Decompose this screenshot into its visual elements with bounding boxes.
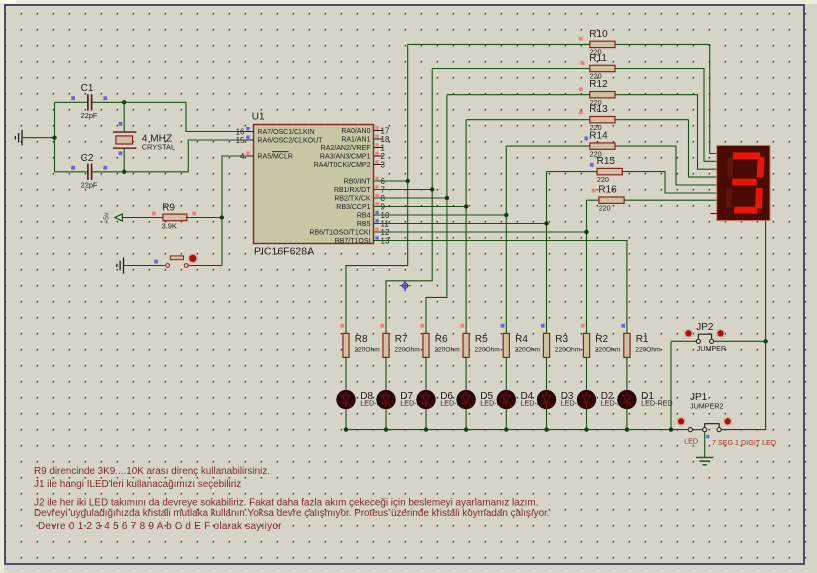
wire ground to node A [22, 137, 55, 139]
svg-text:R7: R7 [395, 334, 408, 345]
wire JP1 to ground [704, 432, 706, 458]
pin 6 (right) RB0/INT [374, 180, 383, 182]
junction RB0 [406, 179, 410, 183]
wire C2 to pin15 [92, 140, 253, 172]
svg-text:RA2/AN2/VREF: RA2/AN2/VREF [321, 145, 371, 152]
svg-text:R2: R2 [595, 334, 608, 345]
wire R6 to D6 [425, 357, 427, 390]
wire node D to pin4 and button [222, 156, 254, 266]
wire RB6 vertical [586, 200, 588, 333]
svg-text:RB6/T1OSO/T1CKI: RB6/T1OSO/T1CKI [309, 230, 370, 237]
svg-text:RA6/OSC2/CLKOUT: RA6/OSC2/CLKOUT [258, 138, 324, 145]
svg-text:220Ohm: 220Ohm [515, 346, 541, 353]
LED D3 [537, 390, 556, 409]
wire ground to button [124, 265, 166, 267]
wire D7 to bus [385, 409, 387, 429]
wire RB2 pin line [374, 197, 447, 199]
wire to R11 left [432, 68, 590, 70]
pin 12 (right) RB6/T1OSO/T1CKI [374, 231, 383, 233]
ground (button) [117, 257, 124, 273]
junction bus D4 [504, 427, 508, 431]
LED D5 [456, 390, 475, 409]
svg-text:R14: R14 [589, 131, 608, 142]
wire to R16 left [587, 199, 599, 201]
pin 16 (left) [246, 131, 254, 133]
wire RB2 vertical [426, 95, 447, 334]
svg-text:220Ohm: 220Ohm [555, 346, 581, 353]
svg-text:22pF: 22pF [81, 111, 98, 120]
pin 10 (right) RB4 [374, 214, 383, 216]
wire R15 to display [622, 172, 716, 193]
svg-text:4: 4 [240, 152, 245, 161]
svg-text:+5v: +5v [104, 212, 111, 224]
junction RB4 [504, 213, 508, 217]
junction bus D5 [464, 427, 468, 431]
junction display common / JP2 [763, 339, 767, 343]
svg-text:220Ohm: 220Ohm [595, 346, 621, 353]
wire D1 to bus [626, 409, 628, 429]
svg-text:3.9K: 3.9K [162, 222, 177, 231]
LED D1 [617, 390, 636, 409]
svg-text:22pF: 22pF [81, 180, 98, 189]
svg-text:R12: R12 [589, 79, 608, 90]
junction RB3 [464, 204, 468, 208]
power +5v arrow terminal [115, 214, 123, 221]
svg-text:CRYSTAL: CRYSTAL [142, 143, 175, 152]
junction bus D2 [584, 427, 588, 431]
wire RB5 pin line [374, 223, 547, 225]
wire JP2 right [714, 340, 766, 342]
junction RB5 [544, 221, 548, 225]
pin 3 (right) RA4/T0CKI/CMP2 [374, 164, 383, 166]
resistor R4 [501, 324, 505, 328]
wire R12 to display [615, 95, 717, 170]
junction bus D6 [424, 427, 428, 431]
svg-text:R1: R1 [636, 334, 649, 345]
capacitor C2 [88, 164, 92, 180]
wire RB1 pin line [374, 189, 433, 191]
resistor R2 [581, 324, 585, 328]
svg-text:R15: R15 [597, 156, 616, 167]
wire R10 to display [615, 44, 717, 153]
resistor R3 [541, 324, 545, 328]
wire R3 to D3 [546, 357, 548, 390]
wire RB7 to R1 [374, 241, 627, 334]
svg-text:LED-RED: LED-RED [641, 399, 673, 408]
wire JP2 left vertical [670, 341, 672, 429]
svg-text:220Ohm: 220Ohm [354, 346, 380, 353]
wire R8 to D8 [345, 357, 347, 390]
svg-text:R8: R8 [355, 334, 368, 345]
svg-text:R16: R16 [598, 185, 617, 196]
wire to R14 left [506, 145, 590, 147]
wire R2 to D2 [586, 357, 588, 390]
svg-text:R3: R3 [555, 334, 568, 345]
7-segment display (digit 3) [717, 145, 770, 220]
wire RB5 vertical [546, 172, 548, 334]
svg-text:LED: LED [684, 437, 698, 446]
LED D7 [376, 390, 395, 409]
wire to R10 left [408, 43, 590, 45]
junction RB1 [430, 187, 434, 191]
node C junction [122, 170, 126, 174]
resistor R5 [461, 324, 465, 328]
wire RB4 vertical [505, 146, 507, 333]
pin 13 (right) RB7/T1OSI [374, 240, 383, 242]
svg-text:220: 220 [599, 203, 611, 212]
svg-text:RB7/T1OSI: RB7/T1OSI [335, 238, 371, 245]
svg-text:3: 3 [381, 161, 386, 170]
wire node A vertical [54, 102, 56, 172]
svg-text:RA5/MCLR: RA5/MCLR [258, 154, 293, 161]
svg-text:RA7/OSC1/CLKIN: RA7/OSC1/CLKIN [258, 129, 315, 136]
svg-text:U1: U1 [252, 112, 265, 123]
wire node B to pin16 [124, 102, 253, 131]
svg-text:JP2: JP2 [696, 322, 714, 333]
svg-text:15: 15 [236, 136, 245, 145]
svg-text:220Ohm: 220Ohm [475, 346, 501, 353]
wire JP2 left [671, 340, 696, 342]
junction bus D1 [625, 427, 629, 431]
LED D4 [497, 390, 516, 409]
resistor R9 [163, 214, 187, 221]
wire R7 to D7 [385, 357, 387, 390]
ground (JP1) [696, 457, 713, 464]
ground (oscillator) [15, 130, 22, 146]
pin 4 (left) [246, 155, 254, 157]
svg-text:JUMPER2: JUMPER2 [690, 401, 724, 410]
svg-text:R13: R13 [589, 104, 608, 115]
wire to R12 left [447, 94, 590, 96]
wire JP1 middle segment [692, 429, 702, 431]
resistor R8 [340, 324, 344, 328]
junction bus D7 [384, 427, 388, 431]
pin 8 (right) RB2/TX/CK [374, 197, 383, 199]
wire +5v to R9 [122, 217, 162, 219]
wire crystal bottom to node C [123, 148, 125, 172]
resistor R6 [420, 324, 424, 328]
svg-text:Devreyi uyguladığınızda krista: Devreyi uyguladığınızda kristali mutlaka… [34, 508, 550, 519]
wire R9 to node D [187, 217, 222, 219]
wire to R13 left [466, 119, 590, 121]
wire RB1 vertical [386, 69, 432, 334]
wire R5 to D5 [465, 357, 467, 390]
svg-text:RB3/CCP1: RB3/CCP1 [336, 204, 370, 211]
node A junction [52, 136, 56, 140]
svg-text:RA1/AN1: RA1/AN1 [341, 137, 370, 144]
wire R11 to display [615, 69, 717, 162]
svg-text:RB2/TX/CK: RB2/TX/CK [334, 196, 371, 203]
LED D6 [416, 390, 435, 409]
wire D2 to bus [586, 409, 588, 429]
svg-text:220Ohm: 220Ohm [434, 346, 460, 353]
wire to R15 left [547, 171, 598, 173]
pin 18 (right) RA1/AN1 [374, 138, 383, 140]
svg-text:C1: C1 [81, 83, 94, 94]
push button (reset) [166, 264, 170, 268]
svg-text:R9: R9 [162, 203, 175, 214]
wire display common [719, 221, 766, 430]
svg-text:C2: C2 [81, 153, 94, 164]
pin 1 (right) RA2/AN2/VREF [374, 147, 383, 149]
svg-text:RB0/INT: RB0/INT [344, 179, 372, 186]
wire C1 to node B [92, 101, 124, 103]
wire RB3 pin line [374, 206, 467, 208]
wire RB4 pin line [374, 214, 507, 216]
wire R1 to D1 [626, 357, 628, 390]
svg-text:7 SEG 1 DIGIT LED: 7 SEG 1 DIGIT LED [712, 438, 776, 447]
node D junction [220, 215, 224, 219]
junction bus / JP2 vertical [669, 427, 673, 431]
resistor R7 [380, 324, 384, 328]
wire R14 to display [615, 146, 717, 185]
wire RB0 vertical [346, 44, 408, 333]
svg-text:RB1/RX/DT: RB1/RX/DT [334, 187, 371, 194]
LED D2 [577, 390, 596, 409]
svg-text:R11: R11 [589, 53, 607, 64]
wire D3 to bus [546, 409, 548, 429]
wire RB3 vertical [465, 120, 467, 334]
junction RB2 [445, 196, 449, 200]
junction bus D3 [544, 427, 548, 431]
junction bus D8 [344, 427, 348, 431]
svg-text:RB4: RB4 [357, 213, 371, 220]
wire button to MCLR net [188, 265, 222, 267]
pin 15 (left) [246, 139, 254, 141]
wire D5 to bus [465, 409, 467, 429]
wire node A to C1 [55, 101, 88, 103]
wire RB0 pin line [374, 180, 408, 182]
wire D6 to bus [425, 409, 427, 429]
LED D8 [336, 390, 355, 409]
wire D4 to bus [505, 409, 507, 429]
wire R16 to display [624, 199, 717, 201]
wire RB6 pin line [374, 231, 587, 233]
svg-text:Devre 0 1 2 3 4 5 6 7 8 9 A b: Devre 0 1 2 3 4 5 6 7 8 9 A b C d E F ol… [38, 521, 282, 532]
node B junction [122, 100, 126, 104]
junction RB6 [584, 230, 588, 234]
pin 7 (right) RB1/RX/DT [374, 189, 383, 191]
svg-text:R10: R10 [589, 29, 608, 40]
svg-text:R9 direncinde 3K9....10K arası: R9 direncinde 3K9....10K arası direnç ku… [34, 466, 270, 477]
wire LED bus [346, 429, 688, 431]
wire R4 to D4 [505, 357, 507, 390]
wire D8 to bus [345, 409, 347, 429]
wire node A to C2 [55, 171, 88, 173]
svg-text:R4: R4 [515, 334, 528, 345]
svg-text:220Ohm: 220Ohm [635, 346, 661, 353]
pin 9 (right) RB3/CCP1 [374, 206, 383, 208]
wire R13 to display [615, 120, 717, 177]
svg-text:RA4/T0CKI/CMP2: RA4/T0CKI/CMP2 [314, 162, 371, 169]
svg-text:PIC16F628A: PIC16F628A [254, 246, 314, 258]
origin marker [400, 280, 411, 291]
pin 11 (right) RB5 [374, 223, 383, 225]
svg-text:RB5: RB5 [357, 221, 371, 228]
pin 2 (right) RA3/AN3/CMP1 [374, 155, 383, 157]
svg-text:R5: R5 [475, 334, 488, 345]
svg-text:JUMPER: JUMPER [697, 344, 727, 353]
resistor R1 [621, 324, 625, 328]
svg-text:R6: R6 [435, 334, 448, 345]
display pin stub 8 [711, 213, 717, 215]
svg-text:RA0/AN0: RA0/AN0 [341, 128, 370, 135]
svg-text:RA3/AN3/CMP1: RA3/AN3/CMP1 [320, 154, 371, 161]
wire node B to crystal top [123, 102, 125, 132]
capacitor C1 [88, 94, 92, 110]
svg-text:220: 220 [597, 175, 609, 184]
pin 17 (right) RA0/AN0 [374, 130, 383, 132]
svg-text:J1 ile hangi ILED'leri kullana: J1 ile hangi ILED'leri kullanacağımızı s… [34, 479, 241, 490]
svg-text:220Ohm: 220Ohm [394, 346, 420, 353]
